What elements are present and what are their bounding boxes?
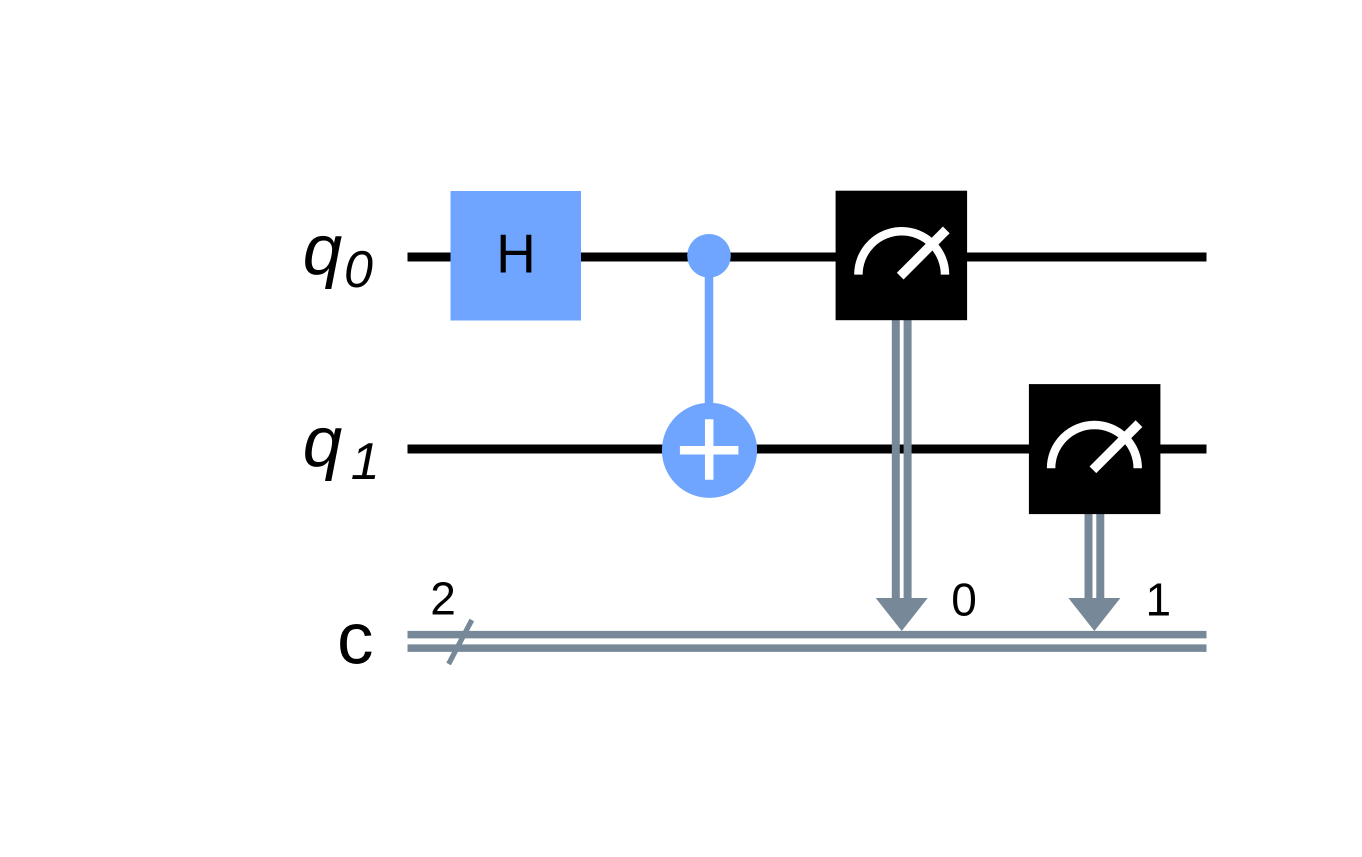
CNOT target on q1 bbox=[662, 403, 757, 498]
wire q1 bbox=[408, 445, 1207, 454]
svg-text:0: 0 bbox=[951, 574, 977, 626]
gate H on q0 bbox=[451, 191, 582, 321]
svg-text:H: H bbox=[496, 223, 536, 285]
CNOT control dot on q0 bbox=[687, 234, 731, 278]
svg-text:2: 2 bbox=[430, 572, 456, 624]
svg-text:1: 1 bbox=[351, 433, 380, 491]
svg-text:1: 1 bbox=[1146, 574, 1172, 626]
qubit label q0 bbox=[303, 211, 373, 299]
svg-text:q: q bbox=[303, 403, 343, 482]
classical wire c (double line) bbox=[408, 635, 1207, 649]
wire q0 bbox=[408, 253, 1207, 262]
measure M1 box on q1 bbox=[1029, 384, 1161, 514]
CNOT vertical link wire bbox=[705, 256, 714, 450]
measure M0 arrow to bit 0 bbox=[876, 318, 928, 631]
qubit label q1 bbox=[303, 403, 380, 491]
svg-text:0: 0 bbox=[344, 241, 373, 299]
measure M1 arrow to bit 1 bbox=[1068, 512, 1120, 631]
svg-text:q: q bbox=[303, 211, 343, 290]
classical wire bundle slash bbox=[449, 620, 472, 664]
measure M0 box on q0 bbox=[836, 191, 968, 321]
svg-text:c: c bbox=[337, 599, 374, 680]
